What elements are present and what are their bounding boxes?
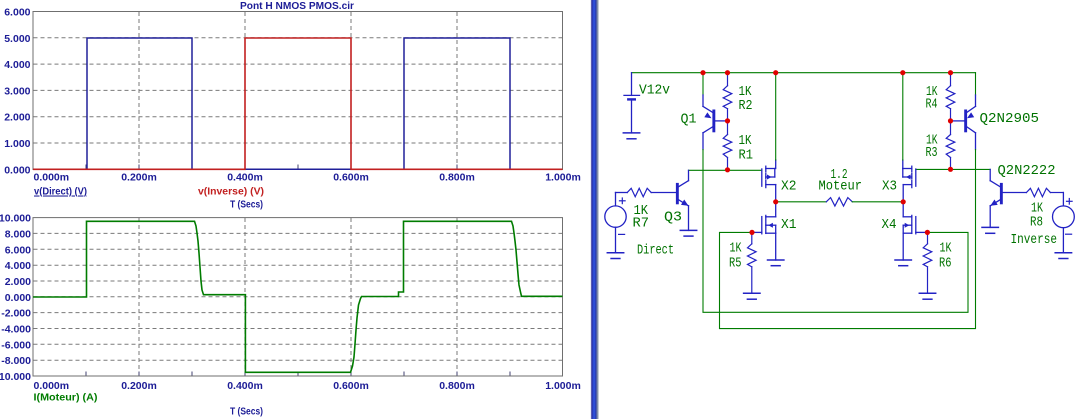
svg-text:8.000: 8.000 [5, 228, 31, 240]
top plot frame [33, 12, 563, 170]
svg-text:-2.000: -2.000 [1, 308, 31, 320]
svg-text:Q3: Q3 [664, 211, 682, 226]
source Direct (sine source V) [605, 193, 627, 253]
svg-text:2.000: 2.000 [4, 112, 30, 124]
svg-text:1.000m: 1.000m [545, 380, 581, 392]
ground below X4 source [895, 260, 911, 266]
junction node R3-gate bus right [948, 167, 953, 172]
I(Moteur) trace [33, 221, 563, 372]
svg-text:R6: R6 [939, 257, 952, 272]
transistor Q2 (Q2N2905 PNP) [951, 95, 976, 150]
mosfet X4 (NMOS) [903, 202, 927, 260]
bottom plot y labels [0, 213, 31, 383]
transistor Q3 (NPN) [676, 170, 689, 230]
svg-text:I(Moteur) (A): I(Moteur) (A) [34, 392, 98, 404]
svg-text:3.000: 3.000 [4, 85, 30, 97]
svg-text:T (Secs): T (Secs) [230, 199, 263, 211]
wire rail to Q2 emitter [975, 73, 977, 95]
svg-text:0.400m: 0.400m [227, 172, 263, 184]
svg-text:v(Inverse) (V): v(Inverse) (V) [198, 186, 264, 198]
wire Q1 collector down / cross-couple to X4 gate [703, 150, 968, 313]
svg-text:1K: 1K [739, 85, 753, 100]
svg-text:0.800m: 0.800m [439, 172, 475, 184]
bottom plot h gridlines [34, 233, 563, 360]
ground below Q4 emitter [982, 227, 998, 233]
svg-text:0.400m: 0.400m [227, 380, 263, 392]
resistor R4 [946, 73, 955, 121]
junction node R4-R3-Q2 base [948, 118, 953, 123]
ground below X1 source [768, 260, 784, 266]
svg-text:Moteur: Moteur [819, 180, 863, 195]
junction node X4 gate-R6 [925, 230, 930, 235]
svg-text:V12v: V12v [639, 84, 670, 99]
svg-text:Inverse: Inverse [1011, 233, 1058, 248]
svg-text:0.800m: 0.800m [439, 380, 475, 392]
svg-text:Q2N2905: Q2N2905 [980, 112, 1040, 127]
resistor R3 [946, 121, 955, 169]
svg-text:0.000: 0.000 [4, 164, 30, 176]
svg-text:1.000m: 1.000m [545, 172, 581, 184]
svg-text:-6.000: -6.000 [1, 339, 31, 351]
ground below R6 [919, 293, 935, 299]
v(Direct) trace [33, 38, 563, 169]
svg-text:2.000: 2.000 [5, 276, 31, 288]
wire rail to X3 source [902, 73, 904, 160]
wire gate bus right (X3 gate to Q4 collector) [916, 168, 990, 170]
svg-text:4.000: 4.000 [5, 260, 31, 272]
ground below Direct [607, 253, 623, 259]
bottom plot axis ticks [86, 372, 510, 376]
top plot h gridlines [34, 38, 563, 143]
bottom plot v gridlines [139, 218, 457, 376]
window splitter divider [591, 0, 600, 419]
svg-text:R3: R3 [926, 146, 938, 161]
resistor R2 [723, 73, 732, 121]
resistor R5 [748, 232, 757, 292]
mosfet X1 (NMOS) [752, 202, 776, 260]
junction node X2-X1-motor left [773, 199, 778, 204]
junction node X3-X4-motor right [901, 199, 906, 204]
svg-text:T (Secs): T (Secs) [230, 406, 263, 418]
mosfet X2 (PMOS) [762, 160, 776, 202]
plus terminal Inverse [1067, 199, 1073, 205]
svg-text:v(Direct) (V): v(Direct) (V) [34, 186, 87, 198]
minus terminal Direct [619, 233, 625, 235]
ground below Q3 emitter [680, 230, 696, 236]
svg-text:0.600m: 0.600m [333, 172, 369, 184]
svg-text:6.000: 6.000 [4, 7, 30, 19]
minus terminal Inverse [1066, 233, 1072, 235]
junction node R2-R1-Q1 base [725, 118, 730, 123]
resistor Moteur 1.2 [826, 198, 852, 206]
transistor Q1 (PNP) [703, 95, 728, 150]
junction node rail-R4 [948, 70, 953, 75]
svg-text:0.600m: 0.600m [333, 380, 369, 392]
resistor R6 [923, 232, 932, 292]
svg-text:R1: R1 [739, 149, 754, 164]
resistor R8 [1003, 188, 1064, 196]
junction node R1-gate bus left [725, 167, 730, 172]
wire top rail +12V [632, 72, 976, 74]
resistor R7 [627, 188, 676, 196]
svg-text:0.200m: 0.200m [121, 172, 157, 184]
svg-text:1K: 1K [940, 241, 953, 256]
svg-text:R2: R2 [739, 99, 753, 114]
svg-text:Pont H NMOS PMOS.cir: Pont H NMOS PMOS.cir [240, 0, 354, 12]
top plot v gridlines [139, 12, 457, 169]
v(Inverse) trace [33, 38, 563, 169]
junction node rail-X3 [900, 70, 905, 75]
svg-text:X2: X2 [781, 180, 797, 195]
svg-text:6.000: 6.000 [5, 244, 31, 256]
svg-text:1K: 1K [730, 241, 743, 256]
svg-text:0.000m: 0.000m [34, 380, 70, 392]
ground below R5 [744, 293, 760, 299]
junction node rail-R2 [725, 70, 730, 75]
resistor R1 [723, 121, 732, 170]
bottom plot x labels [34, 380, 581, 392]
svg-text:-8.000: -8.000 [1, 355, 31, 367]
junction node X1 gate-R5 [749, 230, 754, 235]
svg-text:R4: R4 [926, 98, 938, 113]
transistor Q4 (Q2N2222 NPN) [990, 169, 1003, 227]
plus terminal Direct [620, 198, 626, 204]
bottom plot frame [33, 218, 563, 376]
svg-text:1.000: 1.000 [4, 138, 30, 150]
svg-text:X4: X4 [882, 218, 897, 233]
svg-text:-10.000: -10.000 [0, 371, 31, 383]
mosfet X3 (PMOS) [903, 160, 916, 202]
svg-text:X1: X1 [781, 218, 797, 233]
svg-text:1K: 1K [739, 134, 753, 149]
junction node rail-Q1 [700, 70, 705, 75]
svg-text:5.000: 5.000 [4, 33, 30, 45]
svg-text:0.000: 0.000 [5, 292, 31, 304]
svg-text:0.000m: 0.000m [34, 172, 70, 184]
svg-text:Q2N2222: Q2N2222 [998, 164, 1056, 179]
svg-text:10.000: 10.000 [0, 213, 31, 225]
ground below Inverse [1055, 253, 1071, 259]
svg-text:R5: R5 [729, 257, 742, 272]
svg-text:-4.000: -4.000 [1, 324, 31, 336]
svg-text:4.000: 4.000 [4, 59, 30, 71]
wire rail to Q1 emitter [702, 73, 704, 95]
svg-text:R8: R8 [1030, 216, 1043, 231]
wire X2/X1 node to motor [776, 201, 827, 203]
top plot axis ticks [86, 165, 510, 170]
svg-text:R7: R7 [633, 217, 650, 232]
top plot y labels [4, 7, 30, 177]
top plot x labels [34, 172, 581, 184]
wire Q2 collector down / cross-couple to X1 gate [720, 150, 976, 329]
svg-text:1K: 1K [1031, 202, 1044, 217]
svg-text:0.200m: 0.200m [121, 380, 157, 392]
wire rail to X2 source [775, 73, 777, 160]
svg-text:X3: X3 [882, 180, 897, 195]
battery V12v [624, 73, 640, 133]
svg-text:Direct: Direct [637, 244, 674, 259]
ground below V12v [623, 133, 639, 139]
svg-text:Q1: Q1 [681, 113, 697, 128]
wire motor to X3/X4 node [852, 201, 903, 203]
junction node rail-X2 [773, 70, 778, 75]
wire gate bus left (Q3 collector to X2 gate) [689, 169, 762, 171]
source Inverse (sine source V) [1053, 193, 1075, 253]
